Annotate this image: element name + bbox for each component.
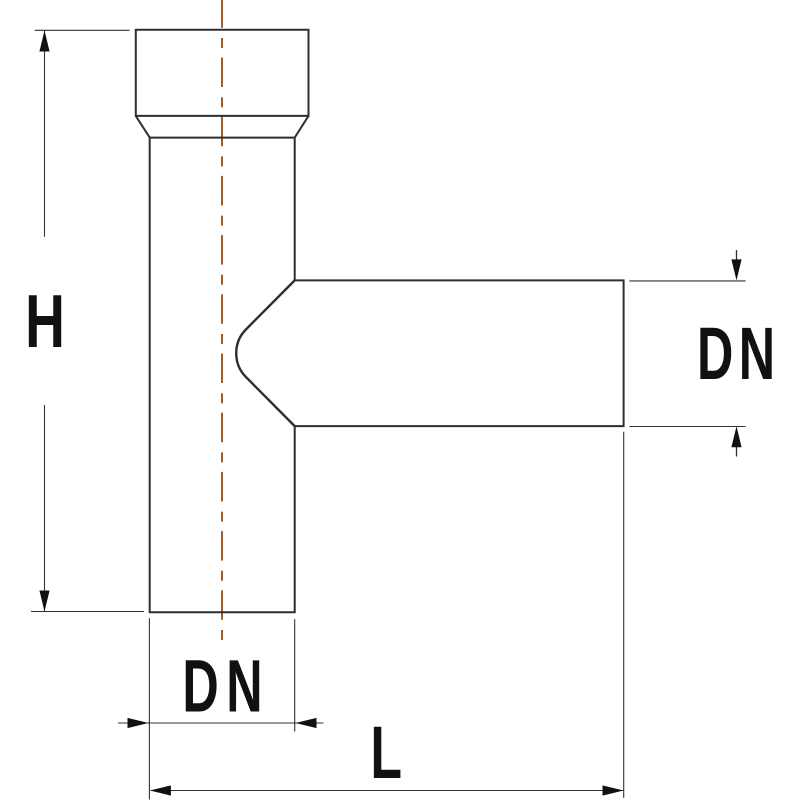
- extension line DN-right top: [629, 280, 745, 282]
- arrow leader DN-right top: [736, 250, 738, 260]
- arrowhead DN-right bottom: [731, 426, 741, 447]
- svg-text:DN: DN: [697, 313, 781, 395]
- socket collar (top hub rectangle): [136, 30, 309, 116]
- extension line DN-bottom right: [294, 619, 296, 732]
- svg-text:H: H: [25, 280, 65, 365]
- arrowhead DN-bottom left (pointing right): [128, 718, 149, 728]
- arrowhead L left (pointing left): [150, 785, 171, 795]
- dimension line H (broken for text): [44, 31, 46, 611]
- svg-text:DN: DN: [182, 646, 270, 728]
- arrowhead H bottom: [39, 591, 49, 612]
- centerline (vertical pipe axis, dashed brown): [221, 0, 223, 640]
- extension line L right: [623, 432, 625, 798]
- arrow leader DN-right bottom: [736, 447, 738, 457]
- branch outlet pipe: [295, 280, 624, 426]
- dimension line DN-bottom: [118, 722, 324, 724]
- taper left (collar to pipe): [136, 116, 150, 138]
- vertical pipe body: [150, 138, 295, 613]
- taper right (collar to pipe): [295, 116, 309, 138]
- arrowhead H top: [39, 31, 49, 52]
- extension line H top: [35, 29, 130, 31]
- extension line DN-right bottom: [629, 426, 745, 428]
- pipe shoulder line: [150, 137, 295, 139]
- arrowhead DN-right top: [731, 259, 741, 280]
- svg-text:L: L: [370, 711, 402, 794]
- arrowhead L right (pointing right): [603, 785, 624, 795]
- extension line DN-bottom left / L left: [148, 618, 150, 799]
- extension line H bottom: [31, 611, 144, 613]
- arrowhead DN-bottom right (pointing left): [296, 718, 317, 728]
- branch junction chevron (rounded point): [236, 280, 294, 426]
- dimension line L: [151, 790, 624, 792]
